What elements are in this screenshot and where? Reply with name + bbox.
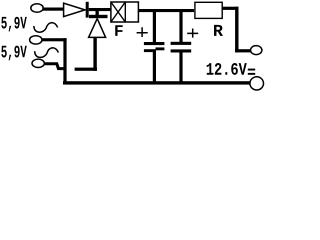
diode D1 cathode bar [86, 2, 89, 18]
capacitor C5 stem bottom [153, 50, 156, 82]
label R [214, 25, 223, 36]
terminal circle C2 (center tap) [30, 36, 42, 44]
label 12.6V= [207, 63, 247, 75]
diode D2 triangle (pointing up) [89, 19, 106, 38]
regulator R box [195, 2, 222, 18]
DC equals sign [248, 69, 255, 71]
output - terminal circle [250, 77, 264, 90]
AC tilde (upper) [34, 23, 58, 33]
wire R output right [222, 7, 238, 10]
main wire fuse to R [138, 9, 194, 12]
capacitor C6 bottom plate [171, 49, 192, 52]
diode D2 cathode bar [89, 15, 108, 18]
capacitor C6 stem bottom [179, 53, 182, 83]
diode D1 triangle [64, 3, 85, 16]
wire C2 right [42, 38, 67, 41]
capacitor C5 top plate [144, 42, 165, 45]
capacitor C5 stem top [153, 11, 156, 42]
fuse F box [111, 2, 138, 22]
wire C3 right (with jog down) [44, 64, 66, 69]
fuse divider [124, 2, 126, 22]
label 5,9V (upper secondary) [1, 17, 26, 32]
wire to + terminal [235, 49, 251, 52]
AC tilde (lower) [35, 48, 59, 58]
output + terminal circle [251, 46, 262, 55]
ground bottom rail [63, 81, 250, 84]
plus sign (C6) [187, 29, 198, 38]
terminal circle C3 (lower secondary bottom) [32, 59, 44, 67]
plus sign (C5) [137, 27, 148, 37]
label 5,9V (lower secondary) [1, 46, 26, 61]
wire D1 to fuse [89, 8, 111, 11]
wire output corner down [235, 7, 238, 53]
label F [115, 25, 122, 36]
terminal circle C1 (upper secondary top) [31, 4, 43, 12]
capacitor C6 stem top [179, 11, 182, 42]
capacitor C6 top plate [171, 42, 192, 45]
wire C1 to D1 [43, 8, 63, 11]
bar from D2 anode toward center tap [75, 68, 97, 71]
node stub to D2 [96, 10, 99, 16]
capacitor C5 bottom plate [144, 49, 156, 52]
wire C2 elbow down to ground rail [63, 38, 66, 83]
fuse X diagonals [111, 2, 125, 22]
diode D2 anode wire down [93, 37, 96, 70]
